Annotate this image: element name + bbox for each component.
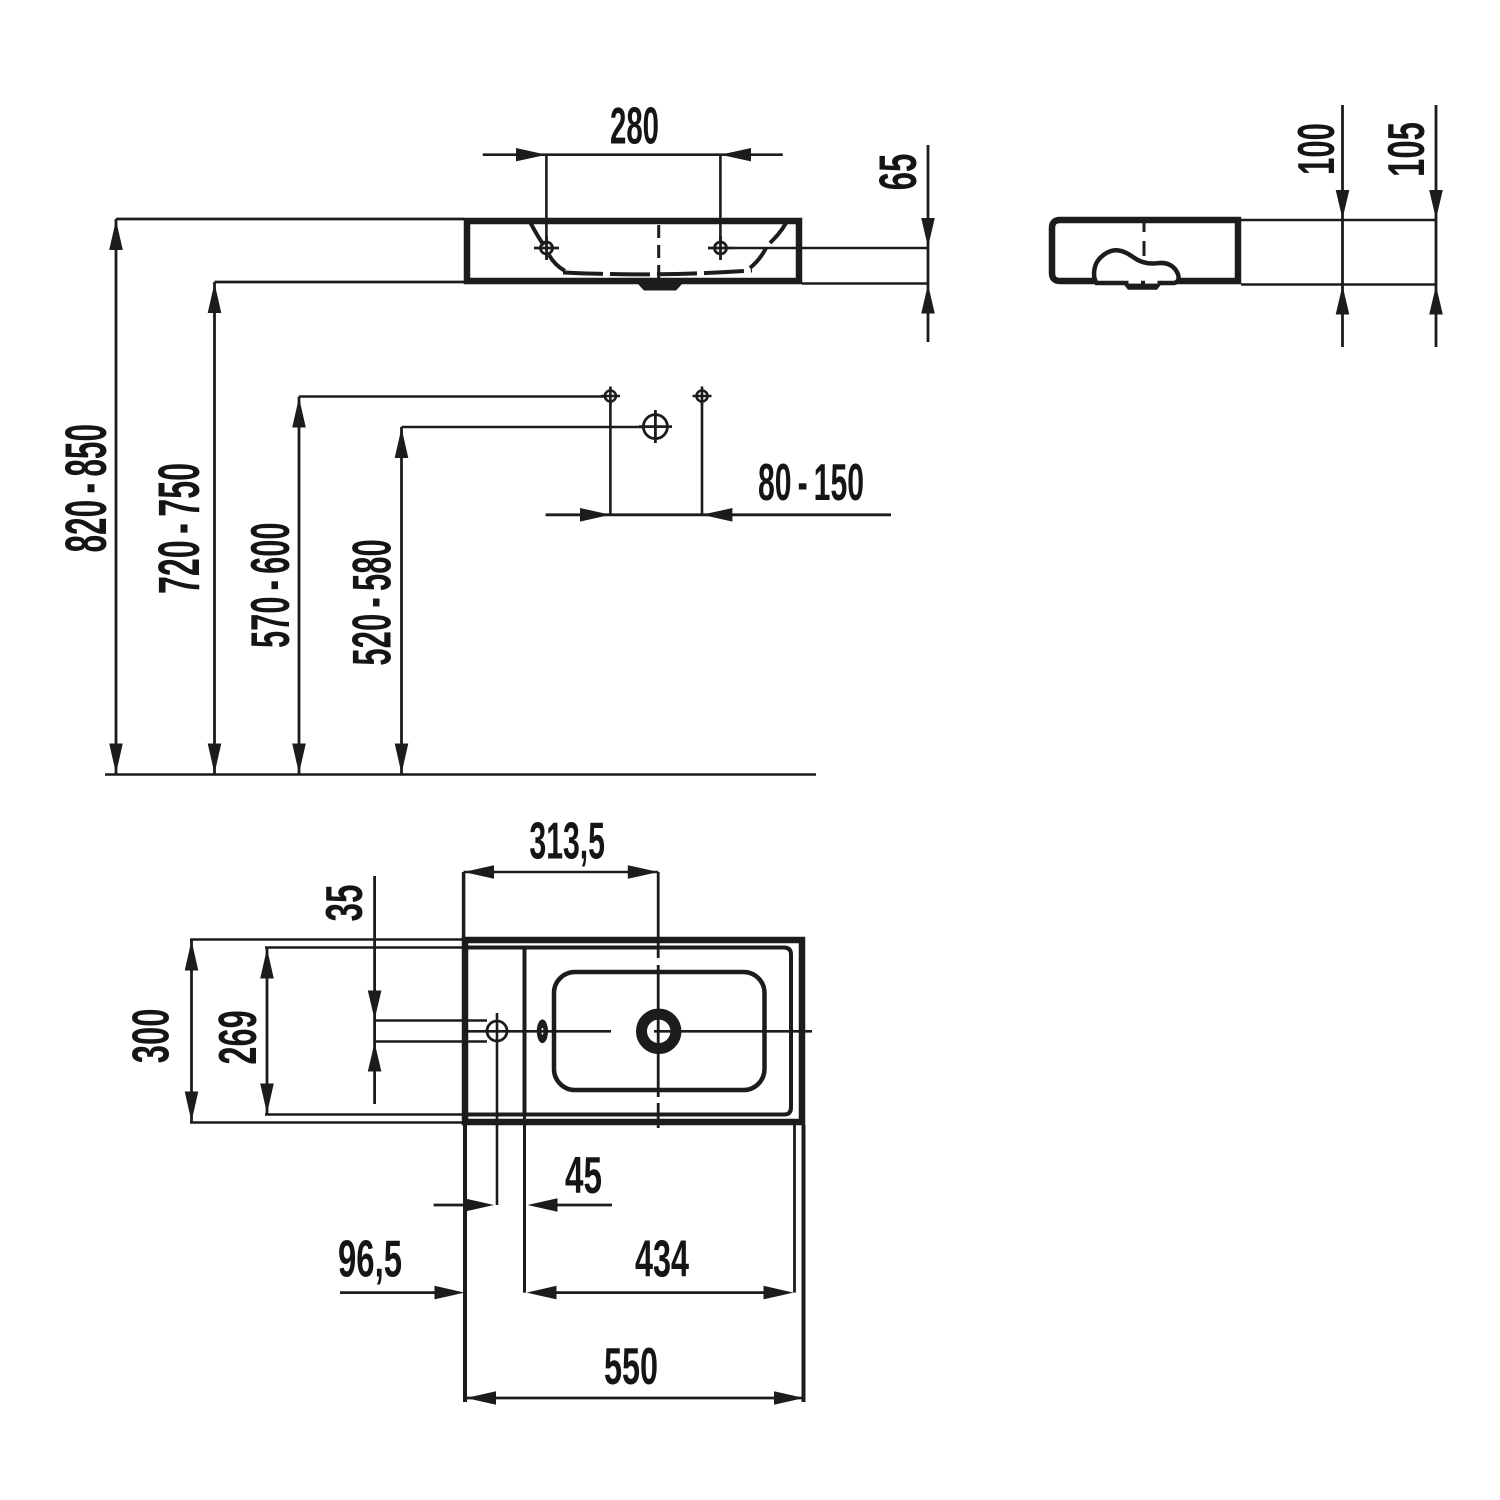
svg-text:105: 105 xyxy=(1378,122,1436,177)
svg-text:96,5: 96,5 xyxy=(338,1231,402,1289)
dim 269: bottom arrowhead xyxy=(260,1084,274,1114)
dim 269: vertical dimension line xyxy=(266,948,269,1115)
dim 313,5: right arrowhead xyxy=(628,865,658,879)
dim 35: strip bottom line xyxy=(375,1040,487,1043)
dim 550: left extension line xyxy=(463,1125,467,1402)
dim 313,5: dimension line xyxy=(464,871,659,874)
dim 720-750: bottom arrowhead xyxy=(208,744,222,774)
front view: right fixing hole xyxy=(708,236,733,260)
dim 80-150: dimension line xyxy=(546,513,891,516)
dim 45: right arrowhead xyxy=(528,1198,558,1212)
dim 313,5: left extension line xyxy=(462,872,466,938)
dim 280: left arrowhead xyxy=(516,148,546,161)
dim 300: vertical dimension line xyxy=(190,940,193,1123)
dim 550: left arrowhead xyxy=(466,1391,496,1405)
svg-text:300: 300 xyxy=(123,1009,181,1064)
side view: drain tab below xyxy=(1124,284,1162,290)
dim 300: bottom arrowhead xyxy=(185,1092,199,1122)
dim 96,5 / 434: shared dimension line left segment xyxy=(340,1291,436,1294)
side view: white notches on bottom edge xyxy=(1129,280,1142,283)
dim 570-600: vertical dimension line xyxy=(298,397,301,775)
dim 100: upper arrowhead xyxy=(1336,190,1350,219)
dim 80-150: right extension line xyxy=(701,402,704,515)
dim 720-750: vertical dimension line xyxy=(213,282,216,775)
dim 570-600: bottom arrowhead xyxy=(292,744,306,774)
svg-text:570 - 600: 570 - 600 xyxy=(239,522,301,648)
dim 820-850: vertical dimension line xyxy=(115,219,118,775)
top view: vertical centerline through drain xyxy=(657,872,660,1128)
front view: left inner bowl curve upper xyxy=(530,222,544,245)
dim 280: right arrowhead xyxy=(720,148,751,161)
dim 434: right extension line (inner rim) xyxy=(793,1122,796,1293)
wall fixing point right crosshair xyxy=(693,387,712,406)
dim 80-150: right arrowhead xyxy=(702,508,732,522)
svg-text:100: 100 xyxy=(1288,123,1346,175)
front view: right inner bowl curve upper xyxy=(770,223,786,243)
top view: drain ring xyxy=(642,1014,676,1048)
dim 570-600: top leader line xyxy=(299,395,605,398)
dim 35: vertical dimension line xyxy=(373,876,376,1104)
dim 720-750: top arrowhead xyxy=(208,283,222,313)
side view: top leader line xyxy=(1241,219,1437,222)
wall supply circle symbol xyxy=(639,410,672,443)
front view: left fixing hole xyxy=(534,236,559,260)
dim 300: bottom extension line xyxy=(190,1121,462,1124)
dim 105: lower arrowhead xyxy=(1429,286,1443,315)
top view: divider extension below xyxy=(523,1115,526,1293)
top view: outer rectangle xyxy=(465,940,802,1122)
top view: inner rim line with rounded right corners xyxy=(468,948,791,1115)
front view: drain boss tab xyxy=(637,283,683,291)
dim 300: top arrowhead xyxy=(185,941,199,971)
top view: bowl rounded rectangle xyxy=(554,972,765,1090)
side view: dashed centerline xyxy=(1143,223,1146,256)
front view: left inner bowl curve lower xyxy=(549,255,565,271)
dim 820-850: top arrowhead xyxy=(109,220,123,250)
dim 65: leader line at basin bottom xyxy=(802,282,928,285)
dim 550: right arrowhead xyxy=(774,1391,804,1405)
svg-text:434: 434 xyxy=(635,1231,689,1289)
dim 520-580: vertical dimension line xyxy=(400,427,403,775)
dim 520-580: top arrowhead xyxy=(395,428,409,458)
svg-text:280: 280 xyxy=(610,98,659,156)
dim 280: left extension line xyxy=(545,155,548,242)
top view: horizontal centerline xyxy=(468,1030,611,1033)
dim 280: right extension line xyxy=(719,155,722,242)
svg-text:720 - 750: 720 - 750 xyxy=(147,463,212,594)
side view: body outline rectangle xyxy=(1052,220,1238,281)
front view: dashed vertical centerline xyxy=(657,225,660,278)
svg-text:313,5: 313,5 xyxy=(529,813,605,871)
dim 45: dimension line right part xyxy=(558,1204,613,1207)
dim 434: left arrowhead xyxy=(527,1286,557,1300)
svg-text:35: 35 xyxy=(316,885,374,922)
dim 550: right extension line xyxy=(802,1125,806,1402)
svg-text:520 - 580: 520 - 580 xyxy=(341,539,403,665)
svg-text:80 - 150: 80 - 150 xyxy=(758,454,864,512)
dim 35: upper arrowhead xyxy=(368,991,382,1020)
dim 80-150: left extension line xyxy=(609,402,612,515)
floor baseline xyxy=(105,773,816,776)
dim 65: upper arrowhead xyxy=(921,218,935,247)
dim 280: dimension line xyxy=(483,153,783,156)
dim 434: right arrowhead xyxy=(764,1286,794,1300)
dim 45: dimension line left part xyxy=(434,1204,464,1207)
dim 100: lower arrowhead xyxy=(1336,286,1350,315)
dim 820-850: bottom arrowhead xyxy=(109,744,123,774)
top view: overflow slot ellipse xyxy=(537,1019,548,1043)
top view: faucet hole circle xyxy=(487,1021,507,1041)
dim 269: top extension line xyxy=(265,946,462,949)
dim 35: lower arrowhead xyxy=(368,1043,382,1072)
dim 45: left arrowhead xyxy=(464,1198,494,1212)
dim 100: vertical dimension line xyxy=(1341,105,1344,347)
dim 80-150: left arrowhead xyxy=(580,508,610,522)
dim 105: upper arrowhead xyxy=(1429,190,1443,219)
dim 65: lower arrowhead xyxy=(921,285,935,314)
dim 550: dimension line xyxy=(466,1397,804,1400)
front view: basin outline rectangle xyxy=(467,221,799,281)
dim 820-850: top leader line xyxy=(116,218,464,221)
svg-text:820 - 850: 820 - 850 xyxy=(54,424,119,553)
dim 105: vertical dimension line xyxy=(1435,105,1438,347)
dim 300: top extension line xyxy=(190,938,462,941)
dim 96,5: right arrowhead at basin left edge xyxy=(435,1286,465,1300)
svg-text:65: 65 xyxy=(869,154,928,191)
dim 570-600: top arrowhead xyxy=(292,398,306,428)
dim 65: leader line at hole level xyxy=(733,247,928,250)
dim 35: strip top line xyxy=(375,1019,487,1022)
top view: shelf divider line xyxy=(523,948,527,1115)
dim 313,5: left arrowhead xyxy=(464,865,494,879)
svg-text:269: 269 xyxy=(208,1010,268,1064)
dim 65: vertical dimension line xyxy=(927,145,930,342)
wall fixing point left crosshair xyxy=(601,387,620,406)
side view: bottom leader line xyxy=(1241,283,1437,286)
dim 520-580: top leader line xyxy=(402,426,644,429)
front view: right inner bowl curve lower xyxy=(750,248,766,268)
side view: overflow channel blob xyxy=(1094,250,1179,283)
top view: faucet hole vertical extension line xyxy=(496,1013,499,1205)
dim 720-750: top leader line xyxy=(215,281,465,284)
svg-text:45: 45 xyxy=(565,1147,602,1205)
svg-text:550: 550 xyxy=(604,1338,658,1396)
dim 269: bottom extension line xyxy=(265,1113,462,1116)
front view: bowl bottom hidden line xyxy=(563,271,752,275)
dim 269: top arrowhead xyxy=(260,949,274,979)
dim 520-580: bottom arrowhead xyxy=(395,744,409,774)
dim 434: dimension line xyxy=(557,1291,765,1294)
